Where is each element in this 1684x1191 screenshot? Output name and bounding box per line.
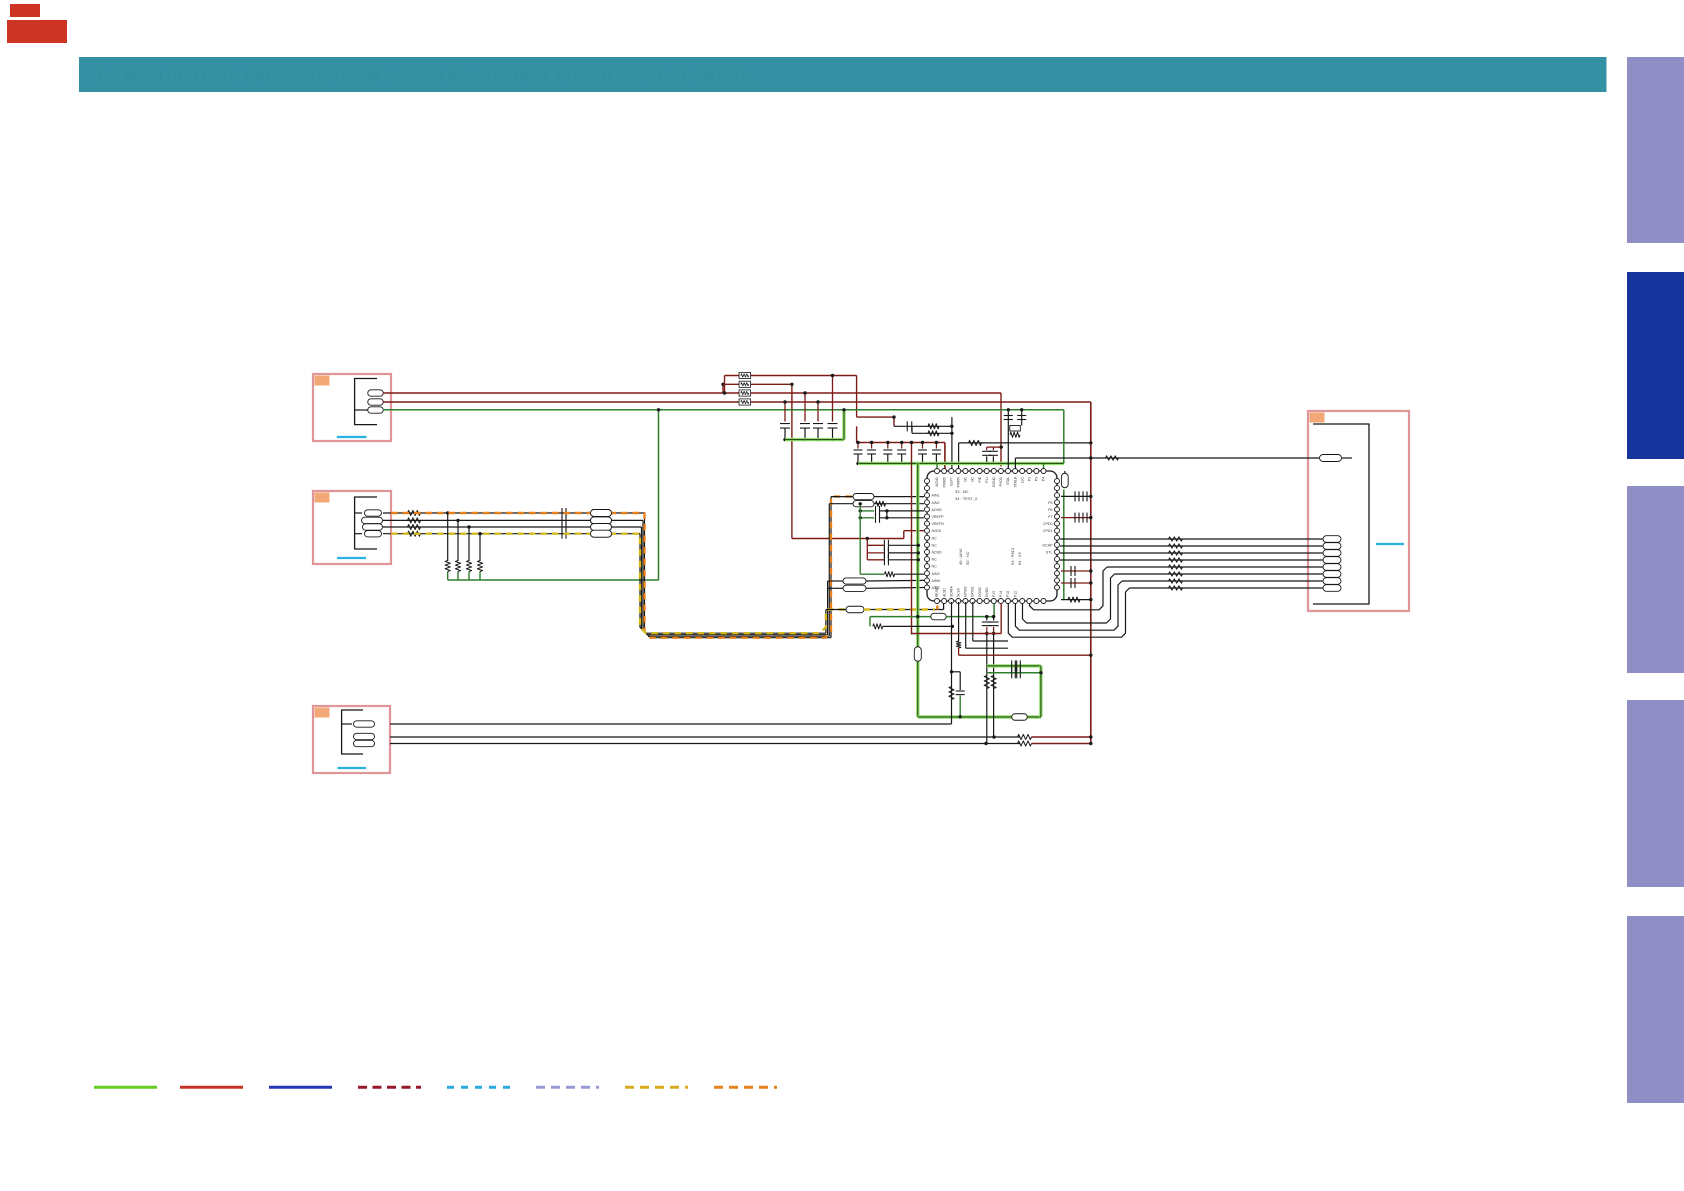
svg-text:DGND: DGND — [978, 586, 982, 597]
svg-text:NC: NC — [971, 476, 975, 481]
svg-text:XTALB: XTALB — [1013, 476, 1017, 487]
svg-text:RESET: RESET — [935, 586, 939, 597]
svg-text:P6: P6 — [1048, 508, 1052, 512]
svg-text:VREFP: VREFP — [932, 515, 945, 519]
svg-text:DVDD: DVDD — [985, 587, 989, 597]
svg-text:SCLK: SCLK — [957, 587, 961, 597]
svg-text:50 : NC: 50 : NC — [965, 551, 970, 565]
svg-text:LLC: LLC — [1020, 476, 1024, 483]
svg-text:63 : P813: 63 : P813 — [1010, 547, 1015, 565]
svg-text:NC: NC — [932, 536, 938, 540]
svg-text:1.2 MAIN PCB (1/3) : CIRCUIT: 1.2 MAIN PCB (1/3) : CIRCUIT DIAGRAM – A… — [96, 68, 754, 85]
svg-text:P14: P14 — [999, 591, 1003, 597]
svg-text:AIN3: AIN3 — [932, 572, 940, 576]
svg-text:CPD0: CPD0 — [1043, 522, 1053, 526]
svg-text:P7: P7 — [1048, 515, 1052, 519]
svg-text:ACND: ACND — [932, 508, 943, 512]
svg-text:STL: STL — [1046, 551, 1053, 555]
svg-text:CPD1: CPD1 — [1043, 529, 1053, 533]
svg-text:ACND: ACND — [932, 551, 943, 555]
svg-text:P4: P4 — [1042, 477, 1046, 481]
svg-text:49 : AIN6: 49 : AIN6 — [958, 548, 963, 565]
svg-text:P11: P11 — [985, 477, 989, 483]
svg-text:NC: NC — [932, 558, 938, 562]
svg-text:GPIO3: GPIO3 — [964, 587, 968, 597]
svg-text:DGND: DGND — [992, 476, 996, 487]
svg-text:P3: P3 — [1035, 477, 1039, 481]
svg-text:ELPY: ELPY — [949, 476, 953, 485]
svg-text:NC: NC — [964, 476, 968, 481]
svg-text:P5: P5 — [1048, 501, 1052, 505]
svg-text:NC: NC — [932, 543, 938, 547]
svg-text:XTAL: XTAL — [1006, 477, 1010, 485]
svg-text:P15: P15 — [992, 591, 996, 597]
svg-text:GPIO2: GPIO2 — [971, 587, 975, 597]
svg-text:PVDD: PVDD — [999, 476, 1003, 486]
svg-text:NC: NC — [932, 565, 938, 569]
svg-text:64 : V5: 64 : V5 — [1017, 552, 1022, 565]
svg-text:PWRN: PWRN — [957, 476, 961, 487]
svg-text:VREFN: VREFN — [932, 522, 945, 526]
svg-text:PIE: PIE — [978, 476, 982, 482]
svg-text:P2: P2 — [1028, 477, 1032, 481]
svg-text:ALSD: ALSD — [942, 588, 946, 597]
svg-text:AIN1: AIN1 — [932, 494, 940, 498]
svg-text:34 : TEST_0: 34 : TEST_0 — [955, 496, 978, 501]
svg-text:SDATA: SDATA — [949, 585, 953, 597]
svg-text:P13: P13 — [1006, 591, 1010, 597]
svg-text:AIN2: AIN2 — [932, 501, 940, 505]
svg-text:PWRD: PWRD — [942, 476, 946, 487]
svg-text:AINN: AINN — [932, 579, 941, 583]
svg-text:DCAP: DCAP — [1043, 543, 1054, 547]
svg-text:P12: P12 — [1013, 591, 1017, 597]
svg-text:AVDD: AVDD — [932, 529, 942, 533]
svg-text:ACND: ACND — [935, 476, 939, 486]
svg-text:33 : NC: 33 : NC — [955, 489, 969, 494]
